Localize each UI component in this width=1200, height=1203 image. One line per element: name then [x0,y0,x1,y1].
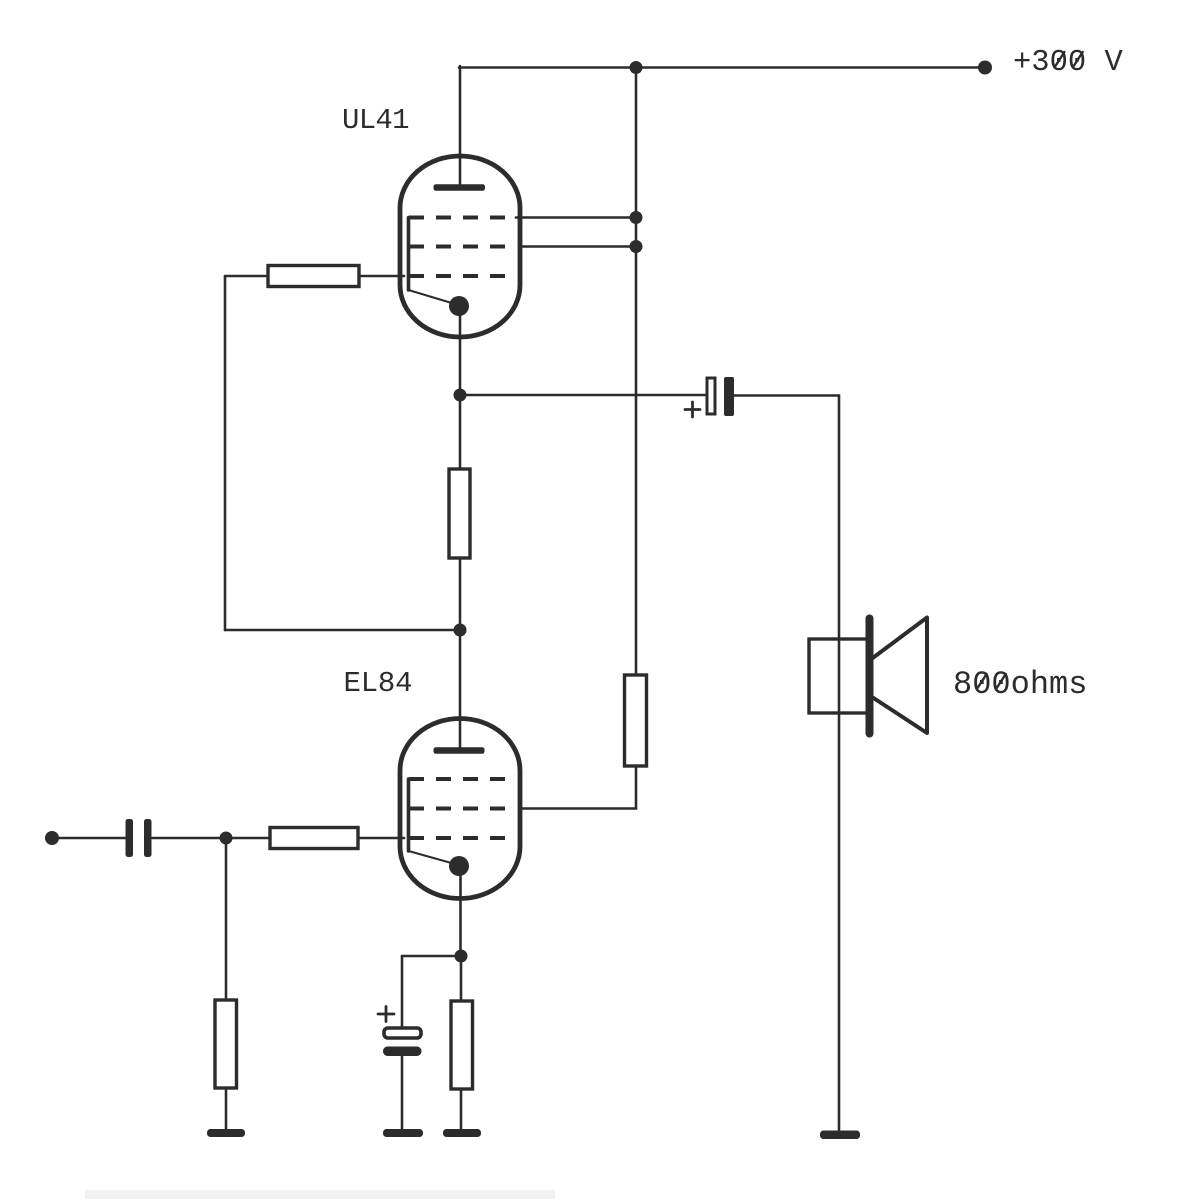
speaker magnet box [809,639,868,713]
resistor cathode bias (vertical) [451,1001,473,1089]
wire input terminal to capacitor [52,837,125,840]
faint cut-off text at bottom edge [85,1190,555,1199]
wire coupling capacitor to speaker corner [734,396,839,640]
wire UL41 cathode down [459,306,462,395]
resistor screen dropper (vertical on rail) [625,675,647,766]
node input terminal [45,831,59,845]
tube EL84 envelope [400,719,520,899]
node feedback junction [454,624,467,637]
ground below speaker [820,1131,860,1140]
cathode EL84 vertical bar [407,779,411,851]
cathode EL84 dot [449,856,469,876]
wire cathode resistor to ground [460,1089,463,1130]
wire grid resistor to EL84 grid3 [358,837,404,840]
node grid1 junction [630,211,643,224]
svg-text:UL41: UL41 [342,104,409,137]
wire bypass branch down to capacitor [401,956,404,1027]
grid 1 UL41 (dashed) [409,216,514,220]
node junction rail at B+ [630,61,643,74]
grid 2 EL84 (dashed) [409,807,514,811]
capacitor bypass positive plate (hollow) [384,1028,421,1038]
wire grid resistor to UL41 grid3 [359,275,404,278]
ground below bypass capacitor [383,1129,423,1137]
wire UL41 grid2 to rail [519,245,636,248]
wire bypass capacitor to ground [401,1056,404,1130]
wire screen rail vertical [635,68,638,676]
capacitor bypass negative plate (solid) [383,1047,422,1057]
cathode EL84 lead diagonal [409,851,456,864]
resistor UL41 grid (horizontal) [268,266,359,287]
resistor grid leak (vertical) [215,1000,237,1088]
resistor EL84 grid (horizontal) [270,828,358,849]
grid 3 UL41 (dashed) [409,274,514,278]
wire B+ top horizontal [459,66,985,69]
node input junction [220,832,233,845]
ground below grid leak [207,1129,245,1137]
wire node to coupling capacitor [460,394,706,397]
wire screen resistor down and left to EL84 grid2 [520,766,636,809]
node cathode output junction [454,389,467,402]
slash of zero in +300 [1055,52,1064,66]
capacitor input plate right [144,819,152,857]
wire UL41 grid1 to rail [516,216,636,219]
wire cathode node to bypass branch [402,955,461,958]
speaker cone [872,618,927,734]
tube UL41 envelope [400,156,520,337]
wire grid leak to ground [225,1088,228,1130]
cathode UL41 vertical bar [407,218,411,291]
wire input node down to grid leak resistor [225,838,228,1000]
svg-text:+300 V: +300 V [1013,46,1124,80]
wire node to grid stopper resistor [226,837,270,840]
cathode UL41 lead diagonal [409,290,456,304]
label + of bypass capacitor [378,1007,394,1022]
wire feedback vertical left [224,276,227,630]
anode plate EL84 [434,747,485,754]
resistor interstage (vertical) [449,469,470,558]
wire interstage down to resistor [459,395,462,469]
capacitor input plate left [126,819,134,857]
svg-text:800ohms: 800ohms [953,666,1087,703]
wire EL84 cathode down [459,866,462,956]
node cathode junction [455,950,468,963]
grid 2 UL41 (dashed) [409,245,514,249]
wire node to EL84 anode riser [459,630,462,750]
grid 3 EL84 (dashed) [409,836,514,840]
grid 1 EL84 (dashed) [409,777,514,781]
speaker diaphragm bar [866,615,874,738]
node grid2 junction [630,240,643,253]
wire feedback to grid resistor [225,275,268,278]
slash of first zero in 800 [977,674,986,689]
wire UL41 anode riser [459,66,462,186]
anode plate UL41 [434,184,486,191]
slash of second zero in 800 [996,674,1005,689]
wire capacitor to input node [152,837,226,840]
wire speaker feed down through box [838,639,841,1131]
capacitor coupling positive plate (solid) [724,377,734,416]
capacitor coupling negative plate (hollow) [707,378,715,414]
svg-text:EL84: EL84 [344,667,413,700]
node B+ terminal [978,61,992,75]
ground below cathode resistor [443,1129,481,1137]
wire cathode node down to cathode resistor [460,956,463,1001]
label + of coupling capacitor [685,402,700,417]
wire resistor to lower node [459,558,462,630]
slash of second zero in +300 [1074,52,1083,66]
wire feedback horizontal lower [225,629,460,632]
cathode UL41 dot [449,296,469,316]
